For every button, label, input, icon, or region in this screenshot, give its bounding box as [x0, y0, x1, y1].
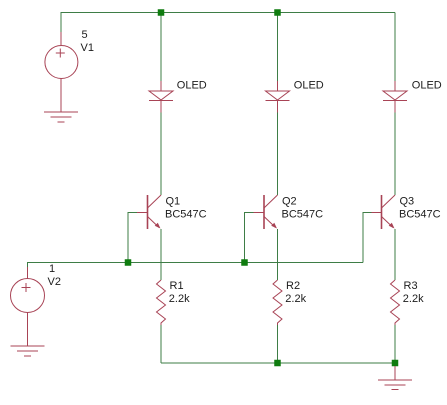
- voltage source V1: [45, 32, 78, 112]
- resistor R2: [273, 280, 282, 325]
- svg-text:BC547C: BC547C: [165, 209, 207, 221]
- ground at V1: [44, 112, 78, 122]
- svg-text:OLED: OLED: [177, 80, 207, 92]
- wire +5V rail to D2: [277, 13, 279, 82]
- svg-text:Q1: Q1: [166, 196, 181, 208]
- svg-text:R2: R2: [286, 280, 300, 292]
- svg-text:OLED: OLED: [294, 80, 324, 92]
- svg-text:Q3: Q3: [400, 196, 415, 208]
- wire D3 cathode to Q3 collector: [394, 113, 396, 196]
- svg-text:V1: V1: [81, 42, 94, 54]
- junction node rail-D1: [158, 9, 165, 16]
- wire R2 to bottom rail: [277, 325, 279, 363]
- wire +5V rail to D3: [394, 13, 396, 82]
- wire Q3 emitter to R3: [394, 229, 396, 280]
- resistor R3: [391, 280, 400, 325]
- svg-text:5: 5: [82, 29, 88, 41]
- svg-text:1: 1: [49, 263, 55, 275]
- wire Q2 emitter to R2: [277, 229, 279, 280]
- wire R1 to bottom rail: [160, 325, 162, 363]
- wire Q1 emitter to R1: [160, 229, 162, 280]
- ground at V2: [11, 346, 45, 356]
- junction node bottom-ground: [392, 360, 399, 367]
- wire D2 cathode to Q2 collector: [277, 113, 279, 196]
- svg-text:BC547C: BC547C: [282, 209, 324, 221]
- svg-text:R3: R3: [404, 280, 418, 292]
- LED D2 OLED: [266, 81, 290, 113]
- wire Q1 base drop: [128, 213, 137, 263]
- junction node rail-D2: [274, 9, 281, 16]
- wire R3 to bottom rail: [394, 325, 396, 363]
- svg-text:2.2k: 2.2k: [169, 293, 190, 305]
- wire Q3 base riser: [363, 213, 372, 263]
- svg-text:Q2: Q2: [282, 196, 297, 208]
- LED D1 OLED: [149, 81, 173, 113]
- voltage source V2: [11, 267, 45, 346]
- svg-text:V2: V2: [48, 276, 61, 288]
- transistor Q1: [137, 195, 161, 229]
- LED D3 OLED: [383, 81, 407, 113]
- junction node bottom-R2: [274, 360, 281, 367]
- svg-text:2.2k: 2.2k: [403, 293, 424, 305]
- svg-text:BC547C: BC547C: [399, 209, 441, 221]
- svg-text:2.2k: 2.2k: [285, 293, 306, 305]
- wire Q2 base drop: [245, 213, 254, 263]
- svg-text:OLED: OLED: [412, 80, 442, 92]
- wire D1 cathode to Q1 collector: [160, 113, 162, 196]
- junction node base-Q2: [241, 259, 248, 266]
- wire +5V rail to D1: [160, 13, 162, 82]
- svg-text:R1: R1: [170, 280, 184, 292]
- transistor Q2: [254, 195, 278, 229]
- wire bottom rail: [161, 362, 395, 364]
- wire V2 base rail: [28, 263, 364, 268]
- resistor R1: [157, 280, 166, 325]
- wire V1 to +5V rail: [61, 13, 395, 33]
- junction node base-Q1: [125, 259, 132, 266]
- ground at bottom right: [378, 366, 412, 390]
- transistor Q3: [372, 195, 396, 229]
